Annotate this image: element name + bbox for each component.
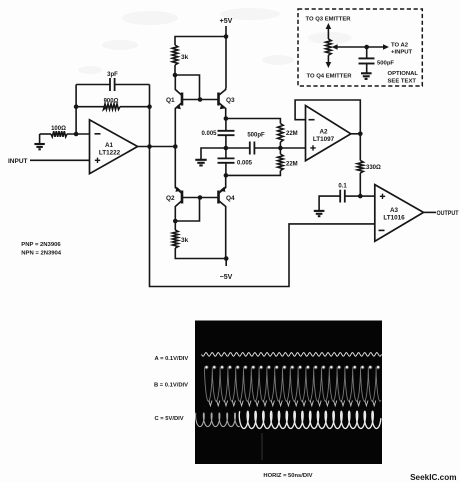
svg-text:+5V: +5V bbox=[220, 18, 233, 25]
wire A2 output bbox=[351, 133, 361, 135]
svg-text:22M: 22M bbox=[286, 131, 298, 137]
wire A2 feedback loop bbox=[295, 100, 360, 134]
svg-text:LT1097: LT1097 bbox=[313, 136, 335, 143]
wire A3 output bbox=[424, 211, 437, 213]
wire node to A2 +input bbox=[280, 147, 305, 149]
wire 3pF left bbox=[76, 84, 110, 86]
svg-text:HORIZ = 50ns/DIV: HORIZ = 50ns/DIV bbox=[263, 473, 312, 479]
capacitor C1 0.005 bbox=[218, 131, 235, 135]
node Q1 collector/base tie bbox=[173, 73, 178, 78]
svg-text:900Ω: 900Ω bbox=[104, 98, 119, 104]
wire Q4 emitter node to 22M bottom bbox=[226, 171, 281, 176]
svg-text:A = 0.1V/DIV: A = 0.1V/DIV bbox=[155, 356, 189, 362]
op-amp A2 LT1097 bbox=[306, 106, 351, 161]
capacitor 500pF series bbox=[226, 142, 281, 155]
node 900 ohm right bbox=[147, 104, 152, 109]
svg-text:500pF: 500pF bbox=[247, 133, 265, 139]
node Q2 collector tie bbox=[173, 219, 178, 224]
svg-text:330Ω: 330Ω bbox=[366, 165, 381, 171]
oscilloscope trace labels bbox=[154, 356, 188, 422]
wire -5V stub bbox=[225, 259, 227, 267]
node wiper junction bbox=[364, 45, 369, 50]
wire +5V stub bbox=[225, 26, 227, 37]
wire 22M top to A2 node bbox=[279, 142, 281, 148]
node Q4 emitter bbox=[224, 173, 229, 178]
capacitor 500pF (optional) bbox=[359, 47, 375, 73]
wire 100 ohm to A1 -input bbox=[67, 133, 90, 135]
wire Q1 base to Q3 base bbox=[182, 99, 219, 101]
node Q3 emitter bbox=[224, 116, 229, 121]
label OPTIONAL SEE TEXT bbox=[388, 71, 419, 85]
wire feedback right vertical bbox=[149, 85, 151, 147]
wire C2 to Q4 emitter node bbox=[225, 163, 227, 176]
ground (0.1 cap) bbox=[314, 211, 325, 216]
resistor 22M top bbox=[278, 124, 284, 143]
wire feedback left vertical bbox=[75, 85, 77, 135]
wire A1 output to A3 -input (long feedback) bbox=[150, 147, 375, 287]
svg-text:LT1222: LT1222 bbox=[99, 150, 121, 157]
transistor Q3 (NPN 2N3904) bbox=[219, 88, 226, 119]
wire 3pF right bbox=[115, 84, 150, 86]
svg-text:Q3: Q3 bbox=[226, 97, 235, 104]
svg-text:−5V: −5V bbox=[220, 274, 233, 281]
resistor 100 ohm bbox=[51, 131, 67, 137]
svg-text:SeekIC.com: SeekIC.com bbox=[410, 473, 456, 482]
capacitor 0.1 bbox=[319, 190, 360, 211]
node base junction Q2/Q4 bbox=[198, 195, 203, 200]
svg-text:Q4: Q4 bbox=[226, 195, 235, 202]
node A2 +input net bbox=[278, 146, 283, 151]
svg-text:Q2: Q2 bbox=[166, 195, 175, 202]
wire node to A3 +input bbox=[360, 195, 375, 197]
wire 330 ohm to A3 +input node bbox=[359, 173, 361, 196]
svg-text:0.005: 0.005 bbox=[201, 131, 217, 137]
svg-text:A3: A3 bbox=[390, 207, 399, 214]
label TO A2 +INPUT bbox=[391, 43, 413, 56]
oscilloscope trace C bbox=[196, 411, 381, 460]
ground center bbox=[195, 160, 206, 166]
svg-text:OUTPUT: OUTPUT bbox=[437, 210, 459, 217]
wire Q3 emitter to 22M top bbox=[226, 119, 281, 124]
resistor R1 3k (top) bbox=[172, 45, 178, 65]
oscilloscope trace B bbox=[204, 365, 381, 406]
capacitor 3pF bbox=[110, 78, 115, 91]
wiper arrow to A2 bbox=[332, 44, 389, 50]
capacitor C2 0.005 bbox=[218, 158, 235, 162]
transistor Q1 (NPN 2N3904) bbox=[175, 75, 182, 147]
svg-text:TO Q3 EMITTER: TO Q3 EMITTER bbox=[306, 17, 352, 23]
svg-text:500pF: 500pF bbox=[377, 60, 394, 66]
node A3 +input bbox=[358, 194, 363, 199]
op-amp A3 LT1016 bbox=[375, 185, 424, 242]
resistor 22M bottom bbox=[278, 154, 284, 171]
svg-text:22M: 22M bbox=[286, 162, 298, 168]
ground G1 (100 ohm) bbox=[34, 134, 44, 149]
svg-text:LT1016: LT1016 bbox=[383, 215, 405, 222]
wire 22M mid node to 22M bottom bbox=[279, 148, 281, 154]
wire 900 ohm right bbox=[120, 106, 150, 108]
svg-text:0.005: 0.005 bbox=[237, 161, 253, 167]
resistor R2 3k (bottom) bbox=[173, 230, 179, 248]
node A1 output feedback tap bbox=[147, 144, 152, 149]
node A1 output to emitter rail bbox=[173, 144, 178, 149]
resistor 900 ohm bbox=[76, 104, 120, 110]
ground (optional box) bbox=[361, 73, 372, 79]
node +5V junction bbox=[224, 34, 229, 39]
node A1 -input bbox=[74, 132, 79, 137]
svg-text:A2: A2 bbox=[319, 129, 328, 136]
svg-text:OPTIONAL: OPTIONAL bbox=[388, 71, 419, 77]
svg-text:Q1: Q1 bbox=[166, 97, 175, 104]
oscilloscope photo background bbox=[195, 321, 382, 465]
svg-text:3pF: 3pF bbox=[107, 72, 118, 78]
wire A1 output bbox=[138, 146, 176, 148]
wire +5V down to Q3 collector bbox=[225, 37, 227, 89]
svg-text:+INPUT: +INPUT bbox=[391, 50, 413, 56]
wire top rail to 3k bbox=[175, 37, 226, 46]
wire A2 output to 330 ohm bbox=[359, 134, 361, 161]
optional trim network dashed box bbox=[298, 9, 422, 86]
wire C1 to ground node bbox=[225, 135, 227, 148]
wire center node to C2 bbox=[225, 148, 227, 158]
wire Q2 collector to 3k bbox=[174, 221, 176, 230]
wire collector-base tie of Q2 bbox=[175, 198, 199, 222]
svg-text:C = 5V/DIV: C = 5V/DIV bbox=[155, 416, 184, 422]
potentiometer trim bbox=[326, 23, 332, 68]
svg-text:0.1: 0.1 bbox=[338, 184, 347, 190]
node -5V junction bbox=[224, 256, 229, 261]
svg-text:3k: 3k bbox=[181, 237, 189, 244]
svg-text:3k: 3k bbox=[181, 54, 189, 61]
wire 3k to -5V node bbox=[175, 248, 226, 259]
svg-text:TO Q4 EMITTER: TO Q4 EMITTER bbox=[307, 74, 353, 80]
transistor Q2 (PNP 2N3906) bbox=[175, 147, 182, 222]
resistor 330 ohm bbox=[357, 161, 363, 174]
op-amp A1 LT1222 bbox=[90, 120, 138, 174]
wire center node to ground bbox=[201, 148, 226, 159]
node A2 output bbox=[358, 132, 363, 137]
svg-text:100Ω: 100Ω bbox=[51, 126, 66, 132]
svg-text:B = 0.1V/DIV: B = 0.1V/DIV bbox=[154, 383, 188, 389]
svg-text:NPN = 2N3904: NPN = 2N3904 bbox=[21, 251, 62, 257]
wire collector-base tie of Q1 bbox=[175, 75, 200, 100]
svg-text:INPUT: INPUT bbox=[8, 158, 28, 165]
svg-text:PNP = 2N3906: PNP = 2N3906 bbox=[21, 242, 61, 248]
svg-text:A1: A1 bbox=[105, 142, 114, 149]
wire Q2 base to Q4 base bbox=[182, 197, 219, 199]
wire Q3 emitter to C1 bbox=[225, 119, 227, 131]
node center ground junction bbox=[224, 146, 229, 151]
oscilloscope trace A bbox=[202, 353, 382, 357]
note PNP/NPN types bbox=[21, 242, 62, 257]
svg-text:SEE TEXT: SEE TEXT bbox=[388, 79, 417, 85]
wire ground to 100 ohm bbox=[40, 133, 51, 135]
wire INPUT to A1 +input bbox=[30, 159, 90, 161]
node feedback 900 ohm tap bbox=[74, 104, 79, 109]
svg-text:TO A2: TO A2 bbox=[391, 43, 409, 49]
wire 3k to Q1 collector node bbox=[174, 65, 176, 75]
node base junction Q1/Q3 bbox=[198, 97, 203, 102]
transistor Q4 (PNP 2N3906) bbox=[219, 175, 226, 258]
